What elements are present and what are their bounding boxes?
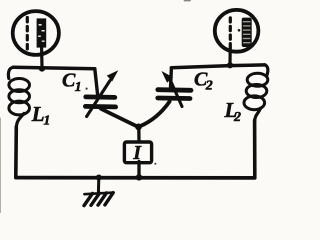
svg-text:2: 2 (233, 110, 241, 125)
label C1 (62, 70, 82, 95)
ground hatch stroke 2 (91, 193, 100, 205)
V1 plate (solid electrode) (37, 18, 47, 47)
wire: C1 bottom to junction (101, 109, 138, 127)
inductor L2 loop 2 (246, 85, 267, 98)
wire: top-right horizontal run (171, 65, 264, 68)
inductor L2 loop 3 (244, 96, 265, 110)
ground hatch stroke 1 (84, 193, 93, 205)
V2 cathode lead wire (228, 49, 231, 65)
ink fleck near C1 label (86, 88, 88, 90)
wire: C1 top stub (corner down to plate) (95, 69, 98, 95)
wire: C2 top stub (169, 68, 173, 88)
inductor L2 loop 1 (247, 73, 268, 86)
inductor L1 loop 2 (9, 90, 30, 103)
capacitor C2 bottom plate (158, 96, 190, 101)
inductor L1 loop 3 (9, 101, 30, 115)
ground hatch stroke 3 (98, 193, 107, 205)
V2 filament (dashed) (229, 18, 232, 48)
V1 filament (dashed cathode) (26, 18, 29, 51)
meter label I (132, 143, 142, 164)
node: capacitor junction above meter (135, 124, 142, 131)
meter I box (124, 142, 151, 163)
wire: top-left horizontal run (13, 67, 95, 69)
V2 grid dot (238, 29, 241, 32)
C2 arrow head (162, 71, 173, 83)
svg-text:I: I (132, 143, 142, 164)
wire: meter bottom lead (137, 162, 140, 177)
wire: right vertical (L2 bottom to ground rail) (253, 121, 257, 177)
node: meter lead joins bottom rail (136, 174, 142, 180)
wire: junction to meter top (137, 127, 140, 142)
wire: bottom rail (16, 176, 255, 180)
inductor L2 entry bend (265, 65, 268, 76)
inductor L1 loop 1 (9, 79, 30, 92)
node: ground tap on bottom rail (96, 175, 102, 181)
ground stub wire (97, 178, 100, 193)
V2 plate (hatched electrode) (242, 18, 252, 47)
wire: left vertical (L1 bottom to ground rail) (14, 127, 18, 176)
wire: C2 bottom to junction (139, 102, 170, 127)
C1 arrow head (107, 70, 119, 81)
capacitor C2 top plate (158, 87, 191, 92)
ground symbol top bar (84, 193, 113, 195)
ground hatch stroke 4 (105, 193, 113, 205)
node: V1 lead joins top-left wire (39, 66, 45, 72)
tube V2 envelope (right) (215, 10, 259, 52)
capacitor C1 top plate (86, 95, 115, 100)
scan artifact: top edge dash (185, 0, 191, 2)
ink fleck near meter (154, 163, 156, 165)
capacitor C1 bottom plate (85, 104, 115, 109)
inductor L1 exit bend (16, 114, 24, 129)
C1 variable arrow shaft (87, 81, 110, 117)
inductor L1 entry bend (8, 67, 13, 78)
svg-text:2: 2 (205, 79, 213, 94)
label L2 (224, 98, 242, 125)
V1 plate lead wire (40, 47, 44, 68)
svg-text:1: 1 (75, 80, 82, 95)
node: V2 lead joins top-right wire (227, 62, 233, 68)
label L1 (31, 102, 51, 129)
label C2 (194, 68, 213, 93)
inductor L2 exit bend (255, 108, 261, 121)
svg-text:1: 1 (43, 114, 50, 129)
tube V1 envelope (left) (13, 11, 59, 55)
C2 variable arrow shaft (171, 81, 183, 107)
scan artifact: left edge line (0, 118, 2, 213)
